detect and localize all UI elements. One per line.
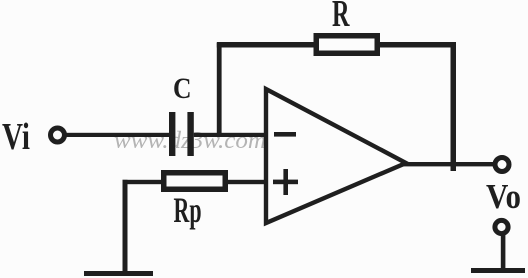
svg-text:Vo: Vo	[486, 177, 521, 216]
svg-text:Rp: Rp	[174, 190, 202, 230]
svg-text:R: R	[332, 0, 350, 35]
svg-text:Vi: Vi	[2, 116, 30, 158]
svg-text:C: C	[173, 72, 192, 105]
